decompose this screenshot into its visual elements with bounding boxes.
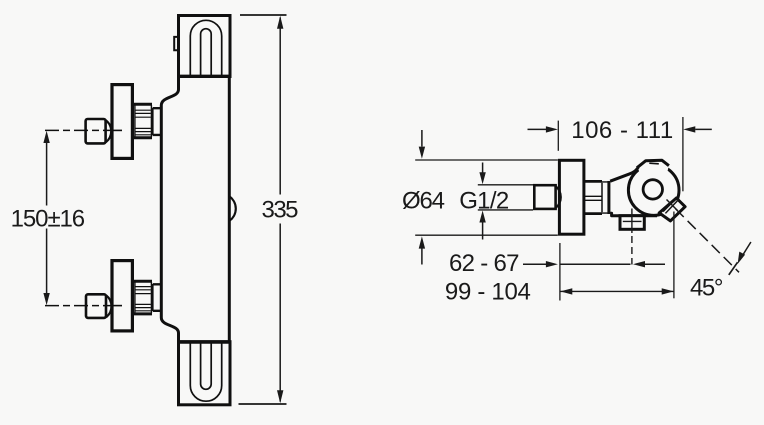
top cap divider line <box>179 75 231 78</box>
bar bottom cap <box>179 342 231 405</box>
dimension 150±16 <box>46 136 48 300</box>
dimension G1/2 <box>478 163 533 240</box>
bottom cap U-groove outer <box>190 342 221 401</box>
svg-text:335: 335 <box>262 196 299 223</box>
bottom adapter ribbed nut <box>134 281 152 314</box>
port crosshair <box>623 209 642 234</box>
valve head hat (flat top) <box>638 160 669 175</box>
dimension 99-104 <box>560 290 674 292</box>
bottom knob hub tick <box>113 305 123 307</box>
svg-text:106 - 111: 106 - 111 <box>571 117 673 144</box>
bottom handle end cap <box>86 294 106 318</box>
plate top extension line <box>415 159 558 161</box>
45° leader arrow <box>740 242 751 260</box>
bottom handle bevel <box>106 295 111 317</box>
bottom small plate <box>152 284 154 311</box>
top knob disc <box>112 85 132 159</box>
cone bottom and body underside line <box>610 213 657 216</box>
bottom cap U-groove inner <box>201 342 212 389</box>
top knob hub tick <box>113 129 123 131</box>
dim 150 arrowheads <box>43 131 49 305</box>
svg-text:62 - 67: 62 - 67 <box>449 250 520 277</box>
spout axis cross ticks <box>665 199 678 213</box>
collar <box>607 181 610 214</box>
svg-text:Ø64: Ø64 <box>402 187 445 214</box>
valve head outer circle <box>628 165 679 216</box>
top small plate <box>152 108 154 136</box>
outlet spout 45° <box>659 198 685 221</box>
top cap U-groove inner <box>201 29 212 76</box>
svg-text:45°: 45° <box>690 275 724 302</box>
top cap U-groove outer <box>190 20 221 76</box>
bottom knob centerline (dashed) <box>45 305 112 307</box>
dim 335 arrowheads <box>277 16 283 403</box>
svg-text:150±16: 150±16 <box>11 206 86 233</box>
top cap side tab <box>174 37 178 50</box>
bottom cap divider line <box>179 340 231 343</box>
handle inner circle <box>643 180 662 199</box>
dimension 62-67 <box>523 263 665 265</box>
spout corner extension line (for 99-104) <box>673 212 675 299</box>
dimension 335 <box>239 15 287 404</box>
svg-text:G1/2: G1/2 <box>459 187 509 214</box>
wall face extension line (top, for 106-111) <box>557 121 559 151</box>
top knob centerline (dashed) <box>45 129 112 131</box>
right edge bump detail <box>229 196 235 221</box>
spout far extension line (for 106-111) <box>682 117 684 191</box>
hat inner thin line <box>649 162 659 165</box>
connector bevel <box>556 186 561 207</box>
connection nut <box>585 181 603 213</box>
svg-text:99 - 104: 99 - 104 <box>445 278 531 305</box>
wall plate <box>559 160 584 234</box>
plate bottom extension line <box>415 234 558 236</box>
dimension 106-111 <box>528 128 712 130</box>
port centerline dashed <box>631 236 633 265</box>
top adapter ribbed nut <box>134 104 152 137</box>
bar body right edge <box>228 75 231 342</box>
bottom port <box>620 216 644 230</box>
bar top cap <box>179 16 231 77</box>
cone top line <box>610 167 638 181</box>
45° end tick <box>729 262 738 275</box>
supply connector square <box>534 185 555 209</box>
wall face extension line (bottom, for 62-67/99-104) <box>559 243 561 301</box>
bottom knob disc <box>112 261 132 331</box>
dimension Ø64 <box>421 130 423 265</box>
dimension extension lines right view <box>415 117 683 301</box>
top handle bevel <box>106 120 111 142</box>
spout inner line <box>663 200 675 212</box>
dimension 45° <box>676 209 739 272</box>
bar body left edge with S-curves <box>161 75 178 342</box>
top handle end cap <box>86 119 106 143</box>
